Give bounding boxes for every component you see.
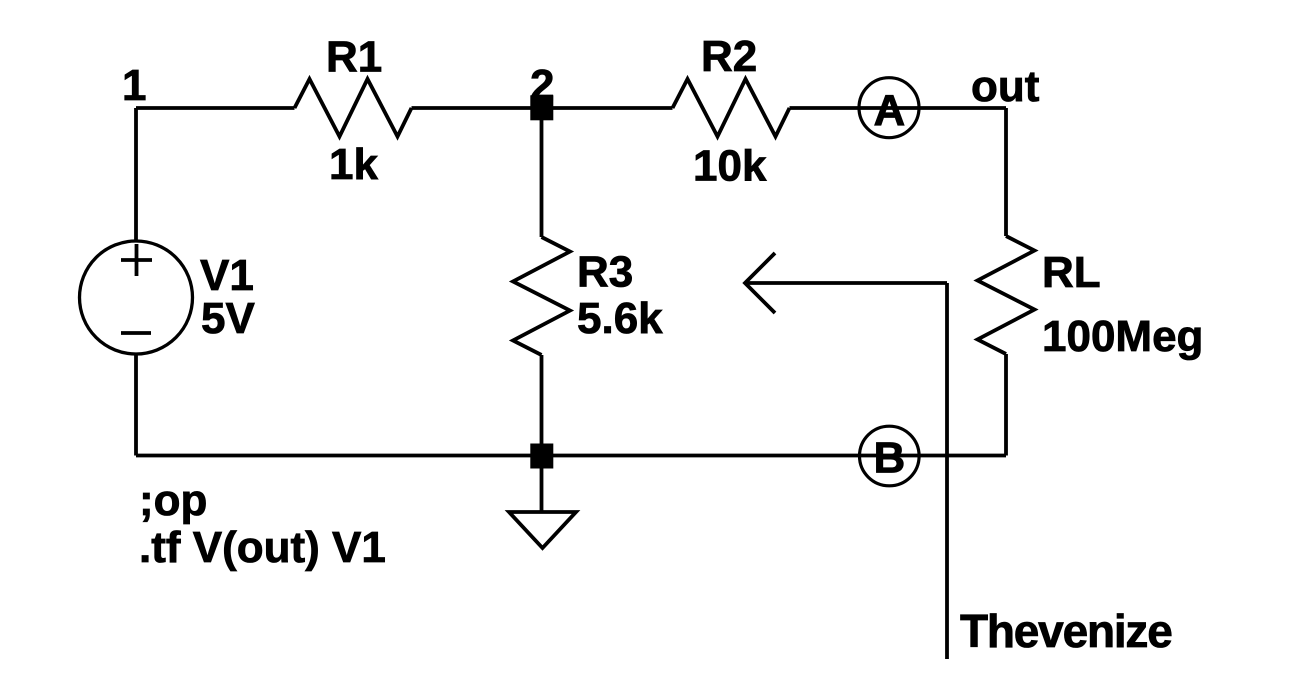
resistor R3: [513, 237, 663, 355]
svg-text:out: out: [971, 62, 1040, 111]
svg-text:B: B: [874, 434, 906, 483]
wire: [136, 106, 295, 110]
wire: [1004, 354, 1008, 456]
svg-text:Thevenize: Thevenize: [960, 605, 1172, 657]
probe B: [860, 426, 920, 486]
wire: [136, 454, 1006, 458]
svg-text:;op: ;op: [139, 476, 207, 525]
ammeter probe A: [859, 78, 919, 138]
wire: [134, 354, 138, 456]
wire: [540, 355, 544, 444]
resistor R1: [295, 33, 412, 190]
wire: [542, 106, 673, 110]
annotation arrow: [745, 253, 947, 659]
wire: [540, 108, 544, 237]
node 2: [530, 61, 554, 120]
svg-text:A: A: [874, 86, 906, 135]
voltage source V1: [80, 241, 256, 354]
svg-text:R3: R3: [577, 248, 633, 297]
wire: [1004, 108, 1008, 236]
wire: [790, 106, 1007, 110]
resistor RL: [978, 236, 1204, 361]
svg-text:10k: 10k: [693, 142, 767, 191]
svg-text:1: 1: [122, 61, 146, 110]
svg-text:1k: 1k: [329, 140, 378, 189]
ground: [509, 512, 576, 548]
svg-text:.tf V(out) V1: .tf V(out) V1: [139, 523, 386, 572]
svg-text:5V: 5V: [201, 294, 255, 343]
wire: [134, 108, 138, 241]
svg-text:5.6k: 5.6k: [577, 294, 663, 343]
svg-text:R1: R1: [326, 33, 382, 82]
junction node 0: [530, 444, 553, 469]
resistor R2: [673, 32, 790, 191]
svg-text:V1: V1: [200, 251, 254, 300]
wire: [540, 469, 544, 513]
svg-text:RL: RL: [1042, 248, 1101, 297]
svg-text:R2: R2: [701, 32, 757, 81]
wire: [412, 106, 542, 110]
svg-text:100Meg: 100Meg: [1042, 312, 1203, 361]
